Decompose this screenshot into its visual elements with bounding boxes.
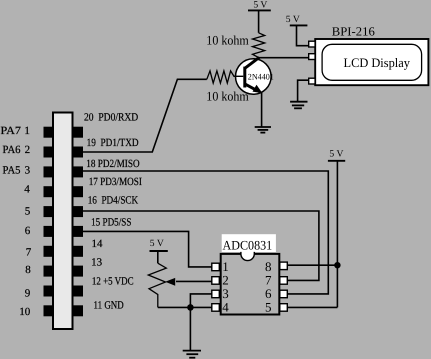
svg-text:LCD Display: LCD Display bbox=[344, 55, 411, 70]
svg-text:9: 9 bbox=[25, 287, 31, 299]
svg-text:17 PD3/MOSI: 17 PD3/MOSI bbox=[89, 176, 142, 188]
connector J1 left pads (pins 1-10) bbox=[44, 127, 53, 317]
svg-text:2: 2 bbox=[25, 144, 31, 156]
svg-text:5 V: 5 V bbox=[253, 0, 267, 11]
svg-text:6: 6 bbox=[25, 225, 31, 237]
connector J1 right pin labels 20 PD0/RXD .. 11 GND bbox=[84, 112, 142, 312]
ADC pin 8 (Vcc) bbox=[280, 262, 288, 270]
LCD pin +5V (top) bbox=[309, 41, 315, 47]
ADC pin 2 (Vin+) bbox=[212, 277, 220, 285]
ADC pin 5 (Vref) bbox=[280, 304, 288, 312]
connector J1 left pin labels PA7..PA5, 1-10 bbox=[1, 125, 32, 318]
wire PD5/SS from pin 15 to ADC pin 1 bbox=[83, 231, 212, 267]
supply +5V (ADC) bbox=[328, 148, 345, 160]
wire pot bottom to ADC pin 4 bbox=[158, 306, 212, 308]
ground (emitter) bbox=[255, 127, 271, 133]
junction node (pot/pin3/pin4/ground) bbox=[187, 304, 194, 311]
ADC pin numbers bbox=[222, 259, 272, 315]
potentiometer wiper arrow to ADC pin 2 bbox=[165, 278, 212, 286]
resistor R2 10 kohm (collector pull-up, vertical zigzag) bbox=[253, 33, 265, 58]
svg-text:14: 14 bbox=[92, 238, 104, 250]
svg-text:18 PD2/MISO: 18 PD2/MISO bbox=[86, 158, 139, 170]
connector J1 right pads (pins 20-11) bbox=[73, 127, 83, 317]
svg-text:4: 4 bbox=[222, 300, 229, 315]
supply +5V (transistor pull-up) bbox=[248, 0, 271, 33]
wire PD1/TXD from pin 19 to base resistor bbox=[83, 79, 207, 152]
svg-text:4: 4 bbox=[24, 184, 30, 196]
wire ADC pin 3 down to junction bbox=[190, 294, 211, 308]
svg-text:5: 5 bbox=[25, 206, 31, 218]
potentiometer R3 (vertical zigzag) bbox=[148, 263, 166, 307]
svg-text:2N4401: 2N4401 bbox=[248, 72, 274, 82]
ADC pin 3 (Vin-) bbox=[212, 290, 220, 298]
wire emitter to ground bbox=[261, 92, 263, 127]
wire collector node to LCD serial pin bbox=[259, 57, 309, 59]
svg-text:10: 10 bbox=[19, 306, 31, 318]
resistor R1 10 kohm (base, horizontal zigzag) bbox=[207, 71, 244, 83]
LCD pin GND (bottom) bbox=[309, 78, 315, 84]
svg-text:13: 13 bbox=[91, 257, 103, 269]
value label 10 kohm (R1) bbox=[206, 88, 249, 103]
svg-text:19 PD1/TXD: 19 PD1/TXD bbox=[87, 137, 139, 149]
svg-text:5: 5 bbox=[265, 300, 272, 315]
wire junction to ground bbox=[189, 307, 191, 350]
svg-text:PA5: PA5 bbox=[3, 164, 21, 176]
ADC pin 7 (CLK) bbox=[280, 277, 288, 285]
wire LCD ground pin to ground bbox=[298, 80, 309, 101]
svg-text:15 PD5/SS: 15 PD5/SS bbox=[91, 216, 131, 228]
IC U1 ADC0831 body bbox=[221, 252, 280, 315]
connector J1 header body bbox=[53, 113, 73, 330]
wire 5V rail to ADC pin 8 and pin 5 bbox=[288, 161, 338, 308]
wire 5V to LCD power pin bbox=[297, 25, 309, 45]
ADC0831 label box bbox=[222, 234, 276, 252]
junction node (5V to pin 8) bbox=[334, 262, 340, 268]
svg-text:5 V: 5 V bbox=[150, 238, 164, 249]
svg-text:PA7: PA7 bbox=[1, 125, 22, 137]
svg-text:5 V: 5 V bbox=[329, 148, 343, 159]
svg-text:1: 1 bbox=[24, 125, 30, 137]
wire PD4/SCK from pin 16 to ADC pin 7 bbox=[83, 211, 319, 280]
ground (potentiometer) bbox=[183, 351, 201, 358]
LCD display inner bezel bbox=[322, 44, 422, 80]
svg-text:10 kohm: 10 kohm bbox=[206, 32, 249, 47]
LCD module BPI-216 label bbox=[332, 24, 375, 38]
LCD pin SER in (middle) bbox=[309, 54, 315, 60]
supply +5V (LCD) bbox=[286, 14, 308, 25]
ADC pin 4 (GND) bbox=[212, 304, 220, 312]
svg-text:ADC0831: ADC0831 bbox=[223, 237, 273, 252]
svg-text:16 PD4/SCK: 16 PD4/SCK bbox=[88, 195, 139, 207]
value label 10 kohm (R2) bbox=[206, 32, 249, 47]
svg-text:20 PD0/RXD: 20 PD0/RXD bbox=[84, 112, 138, 124]
supply +5V (potentiometer) bbox=[150, 238, 168, 263]
svg-text:PA6: PA6 bbox=[3, 144, 21, 156]
svg-text:7: 7 bbox=[26, 247, 32, 259]
ground (LCD) bbox=[290, 102, 307, 109]
transistor Q1 2N4401 bbox=[234, 57, 274, 94]
ADC pin 1 (CS) bbox=[212, 263, 220, 271]
LCD Display text bbox=[344, 55, 411, 70]
svg-text:3: 3 bbox=[25, 164, 31, 176]
svg-text:8: 8 bbox=[25, 264, 31, 276]
LCD module outer box bbox=[315, 39, 428, 85]
ADC pin 6 (DO) bbox=[280, 290, 288, 298]
svg-text:12 +5 VDC: 12 +5 VDC bbox=[92, 275, 134, 287]
svg-text:11 GND: 11 GND bbox=[94, 299, 124, 311]
svg-text:5 V: 5 V bbox=[286, 14, 300, 25]
wire PD2/MISO from pin 18 to ADC pin 6 bbox=[83, 171, 329, 294]
svg-text:BPI-216: BPI-216 bbox=[332, 24, 375, 38]
